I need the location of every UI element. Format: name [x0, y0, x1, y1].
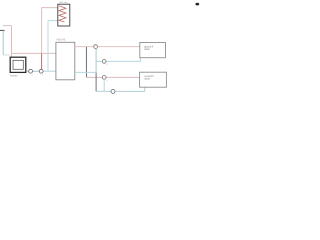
svg-text:t1: t1: [31, 73, 33, 76]
svg-text:a: a: [98, 49, 99, 51]
svg-text:e: e: [116, 95, 117, 97]
svg-text:b: b: [107, 80, 108, 82]
svg-text:Multi RS: Multi RS: [57, 39, 66, 42]
svg-text:loads: loads: [144, 79, 150, 81]
svg-text:d: d: [106, 64, 107, 66]
svg-text:t2: t2: [42, 73, 44, 76]
svg-text:c: c: [87, 43, 88, 45]
svg-text:loads: loads: [144, 49, 150, 51]
svg-text:Inverter: Inverter: [10, 74, 18, 77]
svg-text:1kW elm: 1kW elm: [59, 2, 68, 4]
